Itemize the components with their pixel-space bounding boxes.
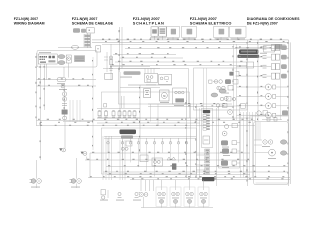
svg-text:FZ1-N(W) 2007: FZ1-N(W) 2007: [14, 17, 38, 21]
svg-text:WIRING DIAGRAM: WIRING DIAGRAM: [14, 21, 45, 25]
svg-text:SCHALTPLAN: SCHALTPLAN: [133, 21, 165, 26]
svg-text:DIAGRAMA DE CONEXIONES: DIAGRAMA DE CONEXIONES: [247, 17, 300, 21]
svg-text:M: M: [163, 94, 165, 98]
svg-text:SCHEMA DE CABLAGE: SCHEMA DE CABLAGE: [72, 22, 114, 26]
svg-text:FZ1-N(W) 2007: FZ1-N(W) 2007: [72, 17, 98, 21]
svg-text:SCHEMA ELETTRICO: SCHEMA ELETTRICO: [190, 21, 232, 26]
svg-text:DE FZ1-N(W) 2007: DE FZ1-N(W) 2007: [247, 21, 278, 25]
